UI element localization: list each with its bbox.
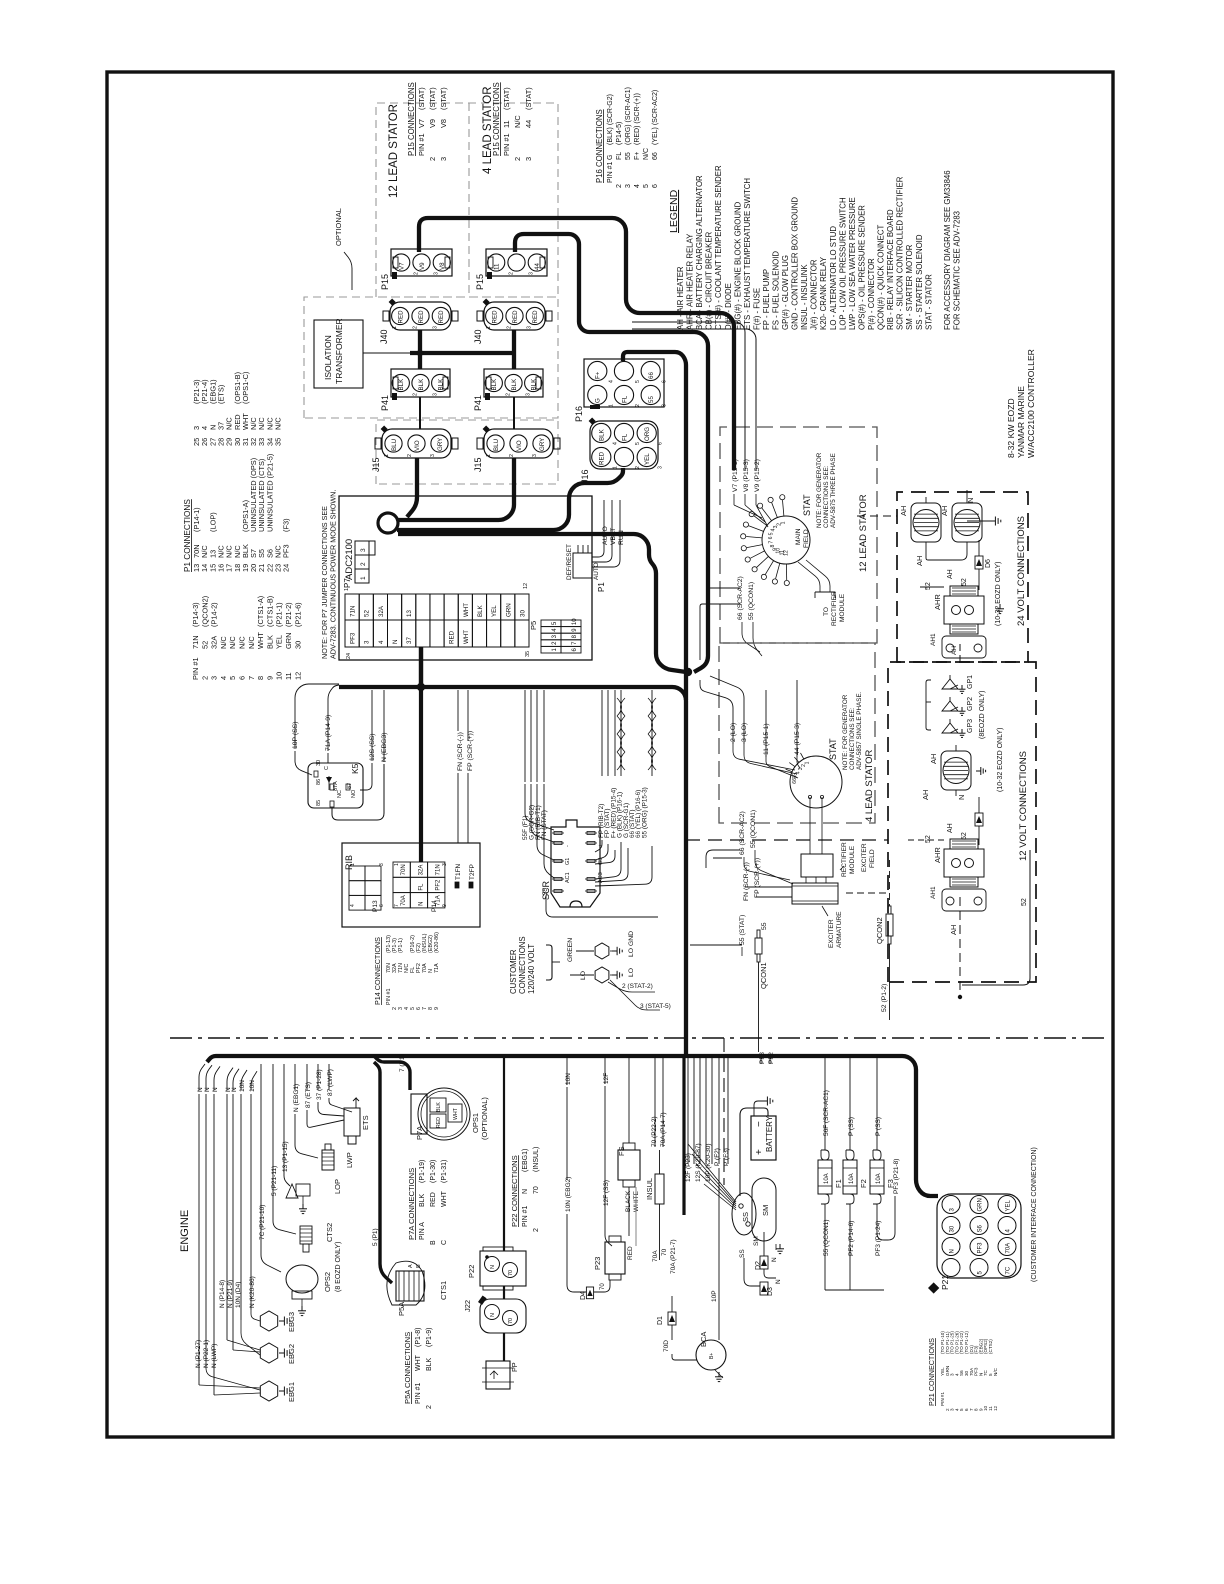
svg-text:−: − [754,1121,765,1127]
svg-text:3: 3 [434,272,440,275]
svg-text:55: 55 [625,152,632,160]
svg-text:70: 70 [661,1248,668,1256]
svg-text:1: 1 [805,761,811,764]
svg-text:13: 13 [406,610,413,617]
svg-text:N (P14-8): N (P14-8) [219,1280,226,1308]
svg-text:B+: B+ [709,1353,715,1359]
svg-text:J(#) - CONNECTOR: J(#) - CONNECTOR [810,259,819,330]
svg-text:PIN A: PIN A [419,1222,426,1240]
connector P7A [411,1094,427,1134]
svg-text:RED: RED [398,310,405,324]
engine block ground EBG3 [260,1311,277,1331]
svg-text:1: 1 [384,454,390,457]
starter motor SM [752,1178,776,1241]
svg-text:V9: V9 [419,262,426,270]
svg-text:CTS1: CTS1 [439,1281,448,1300]
svg-text:N/C: N/C [219,636,228,649]
fuse riser wires [824,1056,826,1142]
fuse F1 [818,1160,832,1194]
wires glow plugs [926,680,931,730]
svg-text:37 (P1-28): 37 (P1-28) [316,1069,323,1100]
sensor CTS2 [300,1226,312,1244]
wire thick J40#1-P41#1 stub [418,330,422,369]
diode D4 [586,1287,593,1299]
svg-text:N: N [212,1087,219,1092]
svg-text:70: 70 [600,1283,606,1290]
svg-text:F+: F+ [634,152,641,160]
svg-text:AH: AH [915,556,924,566]
svg-text:52: 52 [925,582,932,590]
wires bus to FS INSUL [628,1056,630,1143]
svg-text:MODULE: MODULE [839,593,846,622]
svg-text:12F (P23): 12F (P23) [685,1153,692,1182]
svg-text:11: 11 [502,120,511,128]
svg-text:C: C [324,766,330,770]
svg-text:AHR - AIR HEATER RELAY: AHR - AIR HEATER RELAY [686,233,695,330]
svg-text:FOR SCHEMATIC SEE ADV-7283: FOR SCHEMATIC SEE ADV-7283 [953,211,962,330]
svg-text:AH: AH [951,646,958,655]
svg-text:YEL: YEL [644,453,651,465]
svg-text:SM - STARTER MOTOR: SM - STARTER MOTOR [905,244,914,330]
battery [751,1116,776,1160]
svg-text:LO GND: LO GND [628,931,635,957]
svg-text:52: 52 [364,610,371,617]
svg-text:FL: FL [621,433,628,441]
svg-text:ENGINE: ENGINE [179,1210,191,1252]
svg-text:(F3): (F3) [282,518,291,532]
svg-text:-: - [565,845,571,847]
svg-text:PF3: PF3 [282,544,291,558]
svg-text:RECTIFIER: RECTIFIER [841,842,848,877]
12 volt connections dashed box [888,662,1036,982]
switch DEF/RESET [573,553,592,578]
svg-text:CTS(#) - COOLANT TEMPERATURE S: CTS(#) - COOLANT TEMPERATURE SENDER [714,165,723,330]
svg-text:70: 70 [508,1318,514,1324]
connector J15 #2 [484,429,553,458]
svg-text:(CTS2): (CTS2) [988,1339,993,1354]
ground N (24V) [966,490,968,497]
connector P15 (12 lead) [391,249,452,276]
svg-text:2: 2 [200,676,209,680]
svg-text:(CTS1-A): (CTS1-A) [256,596,265,627]
svg-text:(OPS1-C): (OPS1-C) [241,372,250,404]
ADC2100 big grommet circle [378,513,398,533]
svg-text:85: 85 [316,800,322,806]
svg-text:35: 35 [525,651,531,657]
svg-text:ADV-5857 SINGLE PHASE.: ADV-5857 SINGLE PHASE. [856,691,863,770]
svg-text:FP - FUEL PUMP: FP - FUEL PUMP [762,269,771,330]
wire 55 to right [546,896,658,917]
svg-text:BLK: BLK [419,1193,426,1207]
svg-text:PF2: PF2 [768,1052,775,1064]
svg-text:71N: 71N [191,635,200,649]
svg-text:3: 3 [658,466,664,469]
svg-text:D6: D6 [985,559,992,568]
svg-text:8-32 KW EOZD: 8-32 KW EOZD [1006,398,1016,458]
svg-text:1: 1 [360,576,367,580]
svg-text:52: 52 [961,578,968,586]
svg-text:P1 CONNECTIONS: P1 CONNECTIONS [183,499,192,572]
svg-text:WHT: WHT [453,1107,459,1120]
svg-text:C: C [441,1240,448,1245]
svg-text:LOP: LOP [333,1179,342,1194]
insulink INSUL [655,1174,664,1204]
svg-text:12 LEAD STATOR: 12 LEAD STATOR [388,104,400,198]
svg-text:7: 7 [768,541,774,544]
svg-text:QCON(#) - QUICK CONNECT: QCON(#) - QUICK CONNECT [877,225,886,330]
wire OPS2 [261,1090,281,1272]
svg-text:GP2: GP2 [967,697,974,711]
relay P23 [605,1242,625,1274]
svg-text:70A (P21-7): 70A (P21-7) [670,1239,677,1274]
svg-text:10P (SS): 10P (SS) [292,722,299,749]
svg-text:1: 1 [486,326,492,329]
svg-text:P41: P41 [380,395,390,411]
diode D5 [975,813,983,826]
battery positive wire [740,1108,768,1196]
wires FN FP to exciter [745,886,792,888]
svg-text:87 (ETS): 87 (ETS) [305,1082,312,1108]
svg-text:J15: J15 [473,457,483,472]
svg-text:30: 30 [293,641,302,649]
svg-text:PIN #1: PIN #1 [607,161,614,183]
svg-text:N: N [522,1189,529,1194]
svg-text:PIN #1: PIN #1 [386,989,392,1005]
svg-text:N (EBG1): N (EBG1) [293,1084,300,1112]
svg-text:2: 2 [801,764,807,767]
4 lead stator winding circle [790,756,842,808]
svg-text:(P21-1): (P21-1) [275,602,284,627]
svg-text:+: + [754,1149,765,1155]
fuel pump FP [486,1361,510,1389]
svg-text:N: N [966,498,975,503]
svg-text:12: 12 [293,672,302,680]
svg-text:3: 3 [529,272,535,275]
svg-text:44: 44 [524,120,533,128]
svg-text:2: 2 [412,326,418,329]
svg-text:P (F3): P (F3) [723,1148,730,1166]
svg-text:3: 3 [432,393,438,396]
svg-text:N (K20-86): N (K20-86) [249,1276,256,1308]
svg-text:13 (P1-15): 13 (P1-15) [282,1141,289,1172]
svg-text:(P21-2): (P21-2) [284,602,293,627]
svg-text:WHITE: WHITE [633,1190,640,1212]
svg-text:(RED) (SCR-(+)): (RED) (SCR-(+)) [634,93,641,145]
svg-text:N: N [771,1257,778,1262]
svg-text:10A: 10A [849,1173,855,1184]
svg-text:P (SS): P (SS) [875,1117,882,1136]
ground stud 24V [999,604,1001,609]
svg-text:PF3 (P21-8): PF3 (P21-8) [893,1159,900,1194]
svg-text:P21 CONNECTIONS: P21 CONNECTIONS [927,1338,936,1406]
wire thick bus upper b [339,687,686,1054]
wire thick P15-4lead route [515,234,708,672]
sender CTS1 [396,1271,424,1301]
svg-text:P23: P23 [593,1257,602,1270]
svg-text:J40: J40 [473,329,483,344]
svg-text:D3: D3 [767,1287,774,1296]
svg-text:1: 1 [486,454,492,457]
svg-text:FL: FL [616,152,623,160]
svg-text:2: 2 [635,466,641,469]
optional leader line [344,252,352,290]
fuse F2 [843,1160,857,1194]
svg-text:1: 1 [344,588,350,591]
svg-text:BLK: BLK [477,604,484,617]
connector J40 #1 [390,302,451,330]
engine block ground EBG1 [260,1381,277,1401]
isolation transformer box [314,320,363,388]
svg-text:6: 6 [662,380,668,383]
svg-text:2: 2 [509,454,515,457]
svg-text:12: 12 [783,550,789,556]
svg-text:3: 3 [532,454,538,457]
svg-text:(P21-6): (P21-6) [293,602,302,627]
svg-text:5 (P21-11): 5 (P21-11) [271,1166,278,1196]
connector P22 [480,1251,526,1286]
svg-text:N/C: N/C [513,115,522,128]
svg-text:2 (LO): 2 (LO) [730,723,737,742]
svg-text:ADC2100: ADC2100 [344,539,355,580]
wire 12V box left dash link [686,839,888,841]
svg-text:3: 3 [430,454,436,457]
svg-text:LO - ALTERNATOR LO STUD: LO - ALTERNATOR LO STUD [829,226,838,330]
SCR connection stubs left [525,784,554,830]
svg-text:N: N [392,640,399,644]
svg-text:11: 11 [284,672,293,680]
svg-text:AHR: AHR [933,847,942,863]
svg-text:B: B [416,1264,422,1268]
svg-text:66 (SCR-AC2): 66 (SCR-AC2) [737,576,744,620]
svg-text:(P14-5): (P14-5) [616,122,623,145]
wire P41-J15 stub 1 [419,397,421,429]
svg-text:32A: 32A [210,636,219,649]
svg-text:(ORG) (SCR-AC1): (ORG) (SCR-AC1) [625,87,632,145]
svg-text:QCON2: QCON2 [875,917,884,944]
svg-text:3: 3 [773,525,779,528]
svg-text:FP (SCR-(+)): FP (SCR-(+)) [467,731,474,771]
svg-text:55 (STAT): 55 (STAT) [739,915,746,945]
wire 52 right [962,850,1030,985]
svg-text:CONNECTIONS SEE:: CONNECTIONS SEE: [823,465,830,528]
svg-text:BCA: BCA [699,1332,708,1347]
svg-text:55: 55 [648,396,655,403]
connector J16 [590,421,658,469]
wire 10P to BCA [718,1168,720,1340]
K5 wires [295,684,339,749]
svg-text:CONNECTIONS: CONNECTIONS [518,936,527,994]
diode D2 [760,1256,768,1269]
svg-text:44 (P15-3): 44 (P15-3) [794,723,801,755]
wires from bus to SCR left group [524,690,526,782]
svg-text:G1: G1 [565,858,571,865]
frame border [107,72,1113,1437]
svg-text:12F: 12F [603,1073,610,1084]
svg-text:GRY: GRY [539,438,546,451]
svg-text:FP: FP [510,1362,519,1372]
svg-text:(CTS1-B): (CTS1-B) [265,596,274,627]
svg-text:3: 3 [442,863,448,866]
svg-text:OPS2: OPS2 [323,1272,332,1292]
relay AHR (24V) [944,596,984,624]
svg-text:(LOP): (LOP) [208,512,217,532]
svg-text:P16 CONNECTIONS: P16 CONNECTIONS [595,109,604,183]
svg-text:F1: F1 [834,1179,843,1188]
svg-text:12S (K20-87): 12S (K20-87) [695,1143,702,1182]
svg-text:DEF/RESET: DEF/RESET [566,544,573,580]
svg-text:PF3: PF3 [350,632,357,644]
svg-text:T1FN: T1FN [455,863,462,880]
svg-text:AH: AH [929,754,938,764]
svg-text:(P1-1): (P1-1) [398,938,404,953]
svg-text:PF3: PF3 [977,1242,983,1254]
svg-text:(QCON2): (QCON2) [200,596,209,627]
svg-text:FL: FL [418,883,424,891]
svg-text:WHT: WHT [441,1190,448,1207]
svg-text:EBG3: EBG3 [287,1312,296,1332]
svg-text:(INSUL): (INSUL) [533,1147,540,1172]
terminal LO circle [595,967,609,983]
svg-text:STAT: STAT [828,738,838,760]
svg-text:N/C: N/C [643,148,650,160]
svg-text:RED: RED [512,310,519,324]
svg-text:PIN #1: PIN #1 [940,1392,945,1406]
air heater AH 1 (24V) [911,503,941,542]
wire thick grommet bundle 2 to J16 [397,468,623,530]
svg-text:55: 55 [761,922,768,930]
svg-text:TRANSFORMER: TRANSFORMER [334,318,344,384]
svg-text:NO: NO [351,789,357,798]
svg-text:PIN #1: PIN #1 [415,1382,422,1404]
svg-text:N: N [949,1249,955,1253]
stator connection dashed box [376,103,558,297]
connector P16 [584,359,664,407]
svg-text:52: 52 [200,641,209,649]
svg-text:GRN: GRN [977,1198,983,1211]
svg-text:(STAT): (STAT) [524,87,533,110]
alternator BCA [696,1340,726,1370]
svg-text:66: 66 [648,372,655,379]
svg-text:24 VOLT CONNECTIONS: 24 VOLT CONNECTIONS [1016,516,1027,626]
svg-text:CUSTOMER: CUSTOMER [509,949,518,994]
svg-text:PIN #1: PIN #1 [191,657,200,680]
svg-text:BCA - BATTERY CHARGING ALTERNA: BCA - BATTERY CHARGING ALTERNATOR [695,175,704,330]
12 lead stator radial leads [783,500,784,516]
svg-text:2 (STAT-2): 2 (STAT-2) [622,983,653,990]
svg-text:RED: RED [599,451,606,465]
wires V7 V8 V9 to stator [733,494,735,505]
svg-text:10: 10 [275,672,284,680]
svg-text:FP (SCR-(+)): FP (SCR-(+)) [754,858,761,898]
12 lead stator winding circle [762,516,810,564]
svg-text:2: 2 [428,157,437,161]
svg-text:YEL: YEL [491,605,498,617]
svg-text:N: N [231,1087,238,1092]
svg-text:FIELD: FIELD [869,849,876,868]
svg-text:RED: RED [436,1117,442,1128]
svg-text:(10-32 EOZD ONLY): (10-32 EOZD ONLY) [997,728,1004,792]
svg-text:AUTO: AUTO [593,562,600,580]
svg-text:7: 7 [394,904,400,907]
svg-text:3: 3 [210,676,219,680]
svg-text:UNINSULATED (P21-5): UNINSULATED (P21-5) [265,454,274,532]
svg-text:55 (QCON1): 55 (QCON1) [750,810,757,848]
svg-text:P(#) - CONNECTOR: P(#) - CONNECTOR [867,258,876,330]
svg-text:BLACK: BLACK [625,1190,632,1212]
SS terminals [739,1204,743,1208]
svg-text:8: 8 [770,545,776,548]
24 volt connections dashed box [897,492,1028,662]
connector P15 (4 lead) [486,249,547,276]
svg-text:AHR: AHR [933,594,942,610]
svg-text:10N (EBG2): 10N (EBG2) [565,1177,572,1212]
svg-text:5: 5 [769,532,775,535]
svg-text:RECTIFIER: RECTIFIER [831,591,838,626]
svg-text:3: 3 [524,157,533,161]
svg-text:3: 3 [525,393,531,396]
SCR connection stubs right [595,840,602,852]
svg-text:AH: AH [899,506,908,516]
glow plugs GP1 GP2 GP3 [942,679,958,689]
svg-text:24: 24 [282,564,291,572]
svg-text:B: B [430,1240,437,1245]
svg-text:7C: 7C [1005,1266,1011,1274]
svg-text:N: N [418,902,424,906]
svg-text:2: 2 [508,272,514,275]
svg-text:LO: LO [580,971,587,980]
svg-text:N/C: N/C [238,636,247,649]
wire thick bus junction to bus2 [684,672,688,700]
svg-text:70A: 70A [401,895,407,906]
wire thick P15-12lead to stator area [419,218,734,470]
connector J40 #2 [484,302,545,330]
svg-text:SS - STARTER SOLENOID: SS - STARTER SOLENOID [915,234,924,330]
svg-text:3: 3 [527,326,533,329]
svg-text:OPS(#) - OIL PRESSURE SENDER: OPS(#) - OIL PRESSURE SENDER [858,205,867,330]
svg-text:5: 5 [643,184,650,188]
svg-text:4: 4 [612,442,618,445]
svg-text:10A: 10A [824,1173,830,1184]
wire ETS pair [307,1120,344,1127]
svg-text:70A: 70A [1005,1243,1011,1254]
diode D3 [760,1282,768,1295]
wires STAT-2 STAT-5 [608,982,655,992]
svg-text:RIB - RELAY INTERFACE BOARD: RIB - RELAY INTERFACE BOARD [886,209,895,330]
svg-text:P22 CONNECTIONS: P22 CONNECTIONS [510,1155,519,1227]
svg-text:(P1-31): (P1-31) [441,1160,448,1183]
svg-text:3: 3 [360,548,367,552]
svg-text:(STAT): (STAT) [417,87,426,110]
fuse bottom wires [824,1212,826,1290]
svg-text:AH: AH [921,790,930,800]
svg-text:9: 9 [442,904,448,907]
svg-text:QCON1: QCON1 [759,962,768,989]
svg-text:32A: 32A [378,605,385,617]
svg-text:4: 4 [608,380,614,383]
svg-text:+: + [598,844,604,847]
svg-text:SCR - SILICON CONTROLLED RECTI: SCR - SILICON CONTROLLED RECTIFIER [896,176,905,330]
svg-text:5 (P1): 5 (P1) [372,1228,379,1246]
svg-text:70: 70 [533,1186,540,1194]
svg-text:4 LEAD STATOR: 4 LEAD STATOR [864,750,875,822]
svg-text:87 (LWP): 87 (LWP) [327,1069,334,1096]
sender OPS2 [286,1265,318,1293]
svg-text:12 VOLT CONNECTIONS: 12 VOLT CONNECTIONS [1018,751,1029,861]
svg-text:3: 3 [662,404,668,407]
svg-text:71N: 71N [436,864,442,875]
svg-text:FS - FUEL SOLENOID: FS - FUEL SOLENOID [772,251,781,330]
starter solenoid SS [732,1193,756,1235]
